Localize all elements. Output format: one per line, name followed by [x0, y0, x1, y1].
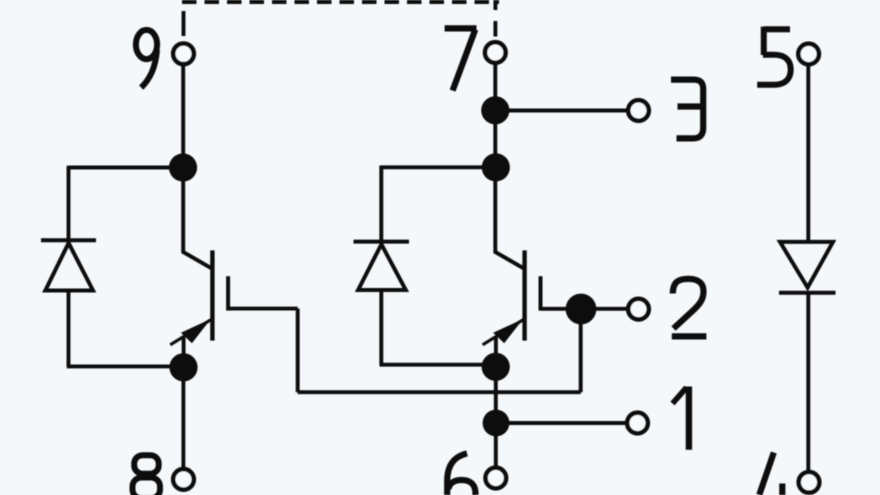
wire Q2 gate lead — [541, 307, 582, 311]
diode D2 (middle freewheel diode) — [354, 242, 410, 290]
dashed boundary left vertical (to terminal 9) — [182, 11, 186, 36]
label 7 — [445, 28, 477, 90]
terminal 4 — [799, 472, 820, 493]
terminal 5 — [798, 44, 819, 65]
node L1 (diode branch node, left) — [169, 153, 197, 181]
node M3 (middle emitter node) — [482, 353, 510, 381]
wire node M3 to node M4 — [494, 367, 498, 423]
wire left diode top leg — [67, 166, 71, 240]
IGBT Q2 body bar — [522, 250, 526, 340]
wire node M4 to terminal 6 — [494, 423, 498, 466]
IGBT Q1 emitter lead with arrow — [170, 318, 213, 355]
wire gate link across — [298, 390, 581, 394]
wire node M1 to terminal 3 — [495, 109, 627, 113]
dashed boundary right vertical (to terminal 7) — [493, 0, 497, 37]
dashed boundary top horizontal — [182, 0, 499, 4]
wire left diode top link — [69, 166, 184, 170]
terminal 8 — [173, 469, 194, 490]
IGBT Q2 collector lead — [494, 168, 523, 269]
label 6 — [447, 453, 475, 495]
wire node L2 to terminal 8 — [181, 367, 185, 467]
gate node G — [566, 294, 597, 325]
label 5 — [757, 27, 791, 85]
wire Q1 gate lead — [228, 307, 298, 311]
terminal 2 — [628, 299, 649, 320]
wire terminal7 to node M1 — [493, 65, 497, 111]
wire middle diode top leg — [379, 166, 383, 242]
wire Q1 gate riser down — [296, 309, 300, 393]
wire terminal 5 to right diode — [806, 66, 810, 242]
IGBT Q2 gate bar — [539, 276, 543, 310]
wire middle diode bottom leg — [379, 290, 383, 365]
terminal 6 — [486, 468, 507, 489]
wire right diode to terminal 4 — [806, 293, 810, 471]
diode D1 (left freewheel diode) — [41, 240, 96, 290]
label 3 — [671, 80, 703, 139]
IGBT Q1 collector lead — [182, 168, 212, 269]
terminal 1 — [627, 413, 648, 434]
node L2 (left emitter node) — [169, 353, 197, 381]
IGBT Q2 emitter lead with arrow — [483, 318, 526, 355]
wire left diode bottom link — [67, 364, 184, 368]
terminal 7 — [485, 42, 506, 63]
node M1 (collector node with terminal 3 branch) — [481, 96, 509, 124]
wire node M1 to node M2 — [493, 110, 497, 167]
label 2 — [672, 279, 707, 337]
node M4 (terminal 1 branch node) — [483, 410, 510, 437]
terminal 3 — [628, 100, 649, 121]
wire gate riser up to gate node — [579, 309, 583, 392]
wire middle diode bottom link — [380, 363, 496, 367]
IGBT Q1 body bar — [210, 250, 214, 340]
label 8 — [133, 455, 161, 495]
label 1 — [673, 387, 689, 450]
wire left diode bottom leg — [67, 291, 71, 367]
wire node M4 to terminal 1 — [496, 421, 627, 425]
terminal 9 — [173, 44, 194, 65]
label 4 — [759, 453, 782, 495]
wire gate node to terminal 2 — [581, 307, 628, 311]
wire terminal9 to collector node — [181, 66, 185, 168]
label 9 — [136, 30, 157, 88]
IGBT Q1 gate bar — [226, 276, 230, 310]
diode D3 (right diode) — [779, 242, 836, 293]
wire middle diode top link — [381, 165, 496, 169]
node M2 (diode branch node, middle) — [482, 153, 510, 181]
